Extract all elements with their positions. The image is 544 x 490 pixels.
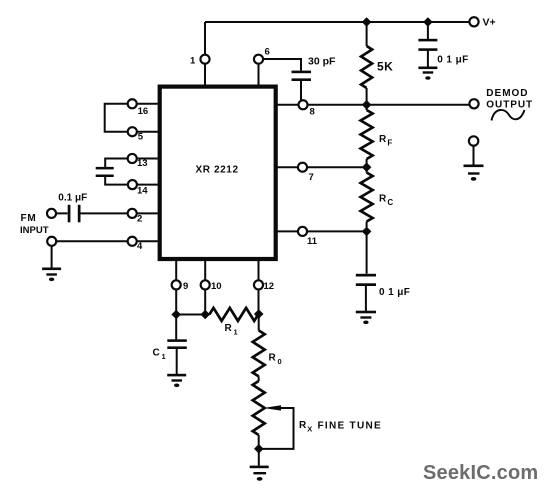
svg-text:FINE TUNE: FINE TUNE: [318, 420, 382, 431]
svg-text:1: 1: [190, 56, 196, 67]
svg-text:C: C: [387, 198, 393, 207]
svg-text:0.1 μF: 0.1 μF: [58, 192, 87, 203]
svg-text:X: X: [307, 424, 312, 433]
svg-text:16: 16: [138, 106, 149, 117]
svg-text:11: 11: [307, 236, 318, 247]
svg-text:F: F: [387, 138, 392, 147]
svg-text:INPUT: INPUT: [20, 225, 49, 236]
svg-text:7: 7: [309, 172, 314, 183]
svg-text:XR 2212: XR 2212: [196, 165, 239, 176]
svg-text:R: R: [225, 323, 233, 334]
svg-text:1: 1: [234, 328, 238, 337]
svg-text:SeekIC.com: SeekIC.com: [423, 462, 538, 484]
svg-text:R: R: [269, 353, 277, 364]
svg-text:0: 0: [278, 357, 282, 366]
svg-text:V+: V+: [483, 17, 496, 29]
svg-text:R: R: [379, 134, 387, 145]
svg-text:1: 1: [162, 352, 166, 361]
svg-text:9: 9: [183, 281, 188, 292]
svg-text:10: 10: [211, 281, 222, 292]
svg-text:4: 4: [137, 241, 143, 252]
svg-text:0 1 μF: 0 1 μF: [379, 287, 410, 298]
svg-text:R: R: [379, 194, 387, 205]
svg-text:5: 5: [138, 132, 144, 143]
svg-text:13: 13: [137, 158, 148, 169]
svg-text:30 pF: 30 pF: [308, 56, 336, 68]
svg-text:2: 2: [137, 214, 142, 225]
svg-text:FM: FM: [21, 213, 37, 224]
svg-text:6: 6: [265, 47, 270, 58]
svg-text:8: 8: [310, 107, 315, 118]
svg-text:C: C: [153, 348, 160, 359]
svg-text:5K: 5K: [377, 60, 393, 74]
svg-text:R: R: [299, 420, 307, 431]
svg-text:DEMOD: DEMOD: [486, 88, 528, 99]
svg-text:12: 12: [264, 281, 275, 292]
svg-text:0 1 μF: 0 1 μF: [437, 54, 468, 65]
svg-text:OUTPUT: OUTPUT: [486, 100, 533, 111]
svg-text:14: 14: [137, 186, 148, 197]
